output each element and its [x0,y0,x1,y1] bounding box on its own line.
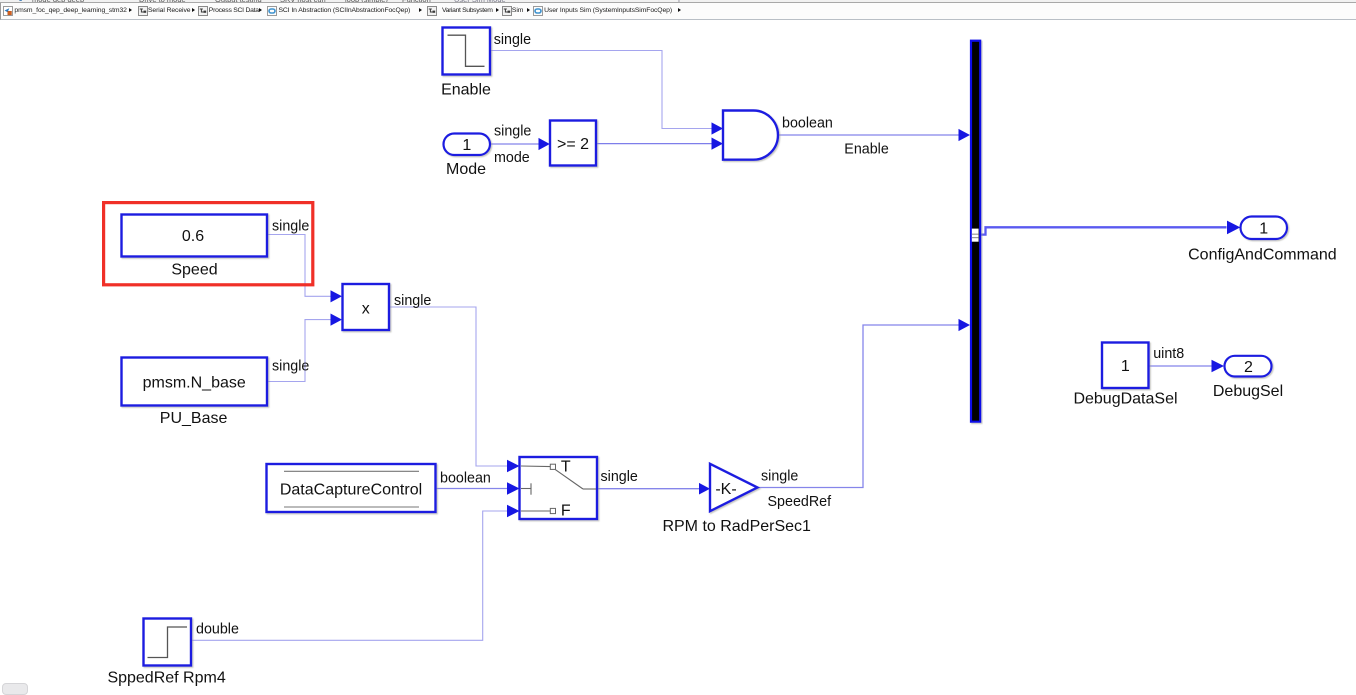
arrowhead into AND input 2 [712,138,724,150]
svg-text:pmsm.N_base: pmsm.N_base [143,374,246,391]
AND gate [723,111,778,160]
svg-text:boolean: boolean [440,471,491,487]
svg-text:DebugDataSel: DebugDataSel [1073,390,1177,407]
svg-text:Enable: Enable [441,81,491,98]
arrowhead into mux from AND [959,129,971,141]
svg-text:uint8: uint8 [1153,346,1184,362]
signal type label boolean (DataCaptureControl out) [440,471,491,487]
svg-text:single: single [272,359,309,375]
signal type label boolean (GTE out) [782,116,833,132]
svg-text:single: single [394,293,431,309]
svg-text:1: 1 [1121,358,1130,375]
svg-text:1: 1 [462,137,471,154]
signal type label single (product out) [394,293,431,309]
label SppedRef Rpm4 [107,670,225,687]
breadcrumb bar [0,3,1356,20]
label Mode [446,161,486,178]
wire Enable to AND gate [490,51,712,129]
signal type label single (switch out) [601,469,638,485]
svg-text:single: single [494,124,531,140]
svg-text:RPM to RadPerSec1: RPM to RadPerSec1 [662,518,811,535]
signal type label single (Mode out) [494,124,531,140]
signal type label single (Enable out) [494,32,531,48]
svg-text:Enable: Enable [844,142,889,158]
step source block Enable [443,28,491,75]
arrowhead into product input 1 [331,290,343,302]
svg-text:DataCaptureControl: DataCaptureControl [280,482,422,499]
arrowhead into DebugSel [1212,360,1225,372]
signal name label Enable [844,142,889,158]
signal type label uint8 [1153,346,1184,362]
wire Mode to GTE [490,143,539,145]
svg-text:ConfigAndCommand: ConfigAndCommand [1188,246,1337,263]
label PU_Base [160,410,228,427]
clipped toolbar strip [0,0,1356,3]
wire AND to mux [778,134,959,136]
red error highlight rectangle [104,203,313,285]
label Enable [441,81,491,98]
block DataCaptureControl [267,464,436,512]
svg-text:-K-: -K- [715,481,736,498]
svg-text:1: 1 [1259,221,1268,238]
arrowhead into product input 2 [331,314,343,326]
wire switch to gain [597,488,699,490]
svg-text:T: T [561,459,571,476]
label RPM to RadPerSec1 [662,518,811,535]
wire SppedRef Rpm4 to switch F input [191,511,507,640]
svg-text:PU_Base: PU_Base [160,410,228,427]
arrowhead into switch T [507,460,520,473]
label ConfigAndCommand [1188,246,1337,263]
svg-text:>= 2: >= 2 [557,136,589,153]
svg-text:single: single [494,32,531,48]
zoom badge bottom left [2,683,28,695]
step source block SppedRef Rpm4 [144,619,192,666]
signal name label mode [494,150,530,166]
svg-text:boolean: boolean [782,116,833,132]
arrowhead into mux from gain [959,319,971,331]
wire product to switch T input [389,307,507,466]
svg-text:single: single [272,218,309,234]
wire gain to mux [758,325,959,488]
signal type label single (PU_Base out) [272,359,309,375]
svg-text:single: single [761,468,798,484]
gain block RPM to RadPerSec1 [710,464,758,511]
svg-text:Mode: Mode [446,161,486,178]
outport DebugSel [1225,356,1272,377]
svg-text:SpeedRef: SpeedRef [768,494,832,510]
switch block [520,457,598,519]
arrowhead into AND input 1 [712,122,724,134]
mux output notch [972,229,979,242]
constant block pmsm.N_base [122,358,268,406]
wire PU_Base to product [267,320,330,382]
wire mux to ConfigAndCommand port [979,227,1227,234]
svg-text:single: single [601,469,638,485]
wire DebugDataSel to DebugSel port [1149,365,1212,367]
svg-text:DebugSel: DebugSel [1213,383,1283,400]
outport ConfigAndCommand [1241,217,1288,240]
arrowhead into switch control [507,482,520,495]
constant block DebugDataSel [1102,343,1149,389]
inport Mode [444,134,491,156]
product block x [343,284,390,330]
svg-text:Speed: Speed [171,262,217,279]
signal type label single (gain out) [761,468,798,484]
label Speed [171,262,217,279]
svg-text:F: F [561,502,571,519]
arrowhead into switch F [507,505,520,518]
svg-text:double: double [196,622,239,638]
wire GTE to AND gate [596,143,711,145]
wire Speed 0.6 to product [267,235,330,297]
svg-text:2: 2 [1244,359,1253,376]
compare block >= 2 [550,121,596,166]
constant block Speed 0.6 [122,215,268,257]
signal type label double [196,622,239,638]
wire DataCaptureControl to switch control [436,488,507,490]
arrowhead into GTE [539,138,550,150]
svg-text:SppedRef Rpm4: SppedRef Rpm4 [107,670,225,687]
svg-text:x: x [362,301,370,318]
signal type label single (Speed out) [272,218,309,234]
svg-text:mode: mode [494,150,530,166]
signal name label SpeedRef [768,494,832,510]
label DebugDataSel [1073,390,1177,407]
label DebugSel [1213,383,1283,400]
arrowhead into ConfigAndCommand [1227,221,1240,235]
arrowhead into gain [699,483,710,495]
mux bus bar [971,41,980,422]
svg-text:0.6: 0.6 [182,228,204,245]
